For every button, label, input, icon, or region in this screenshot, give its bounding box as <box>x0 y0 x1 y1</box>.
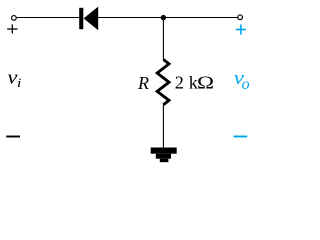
minus sign (input polarity) <box>6 136 20 138</box>
svg-text:R: R <box>137 73 149 93</box>
minus sign (output polarity) <box>234 136 248 138</box>
svg-text:Ω: Ω <box>197 74 214 93</box>
ground <box>151 148 177 163</box>
diode D1 (cathode bar) <box>79 8 83 29</box>
svg-text:i: i <box>17 76 22 90</box>
wire (left terminal to diode) <box>17 17 79 19</box>
output terminal (open circle) <box>238 15 243 20</box>
plus sign (output polarity) <box>236 24 246 34</box>
wire (resistor to ground) <box>162 105 164 149</box>
diode D1 (anode triangle) <box>84 7 99 31</box>
wire (node to resistor) <box>162 18 164 60</box>
wire (diode to output terminal) <box>98 17 237 19</box>
resistor R (zigzag) <box>157 60 169 105</box>
node (junction dot) <box>161 15 166 20</box>
input terminal (open circle) <box>12 16 17 21</box>
svg-text:o: o <box>242 76 250 93</box>
plus sign (input polarity) <box>7 24 17 33</box>
svg-text:2 k: 2 k <box>175 73 199 93</box>
